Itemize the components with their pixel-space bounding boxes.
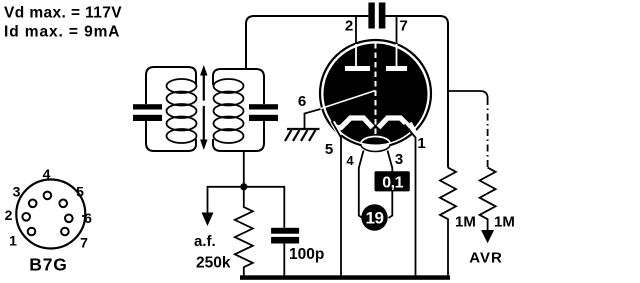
wire pin3 heater [388,151,393,219]
svg-text:5: 5 [76,184,84,200]
svg-text:1M: 1M [455,214,476,231]
socket pin hole 1 [28,228,36,236]
capacitor C1 plates [133,104,162,109]
socket pin hole 4 [44,192,52,200]
resistor R2 1M [480,168,496,231]
svg-text:AVR: AVR [469,250,503,267]
tube socket B7G outline [16,180,85,249]
heater supply badge 19 [361,204,387,230]
wire pin6 [305,109,321,128]
heater ellipse [361,137,391,152]
ground [285,129,320,141]
svg-text:6: 6 [84,210,92,226]
wire pin2 to rail [355,16,357,46]
wire pin1 [405,125,416,276]
wire pin4 heater [359,151,364,219]
capacitor C4 100p plates [271,228,299,234]
secondary tank loop top [213,69,264,104]
svg-text:1: 1 [9,233,17,249]
svg-text:4: 4 [346,153,354,168]
junction node [240,183,247,190]
svg-text:3: 3 [13,184,21,200]
socket pin hole 3 [29,200,37,208]
capacitor C2 plates [249,104,278,109]
capacitor 0,1 block [375,171,410,191]
pin5 exit channel [333,122,341,136]
svg-text:2: 2 [5,207,13,223]
svg-text:Id max. = 9mA: Id max. = 9mA [4,24,120,41]
tube V1 body [324,44,428,145]
tube V1 envelope [320,40,431,147]
svg-text:19: 19 [366,209,384,228]
svg-text:7: 7 [80,235,88,251]
socket pin hole 7 [61,228,69,236]
socket pin hole 2 [22,213,30,221]
cathode right [379,118,411,128]
svg-text:0,1: 0,1 [382,175,403,192]
svg-text:1: 1 [417,135,425,152]
wire node to C4 [244,187,284,228]
grid-6 internal lead [321,91,376,109]
coil L1 [167,79,197,143]
socket pin hole 5 [59,200,67,208]
svg-text:7: 7 [400,18,408,35]
heater ellipse lower arc [361,144,391,151]
wire secondary top to rail [246,16,368,69]
wire branch to AVR [448,91,488,98]
anode plate right [386,66,407,71]
anode wire pin7 [396,44,398,67]
shield dashed line [375,43,377,137]
svg-text:3: 3 [395,151,403,168]
svg-text:B7G: B7G [29,255,67,275]
socket index tick [82,215,87,217]
wire C4 to bus [283,244,285,277]
svg-text:1M: 1M [494,214,515,231]
svg-text:2: 2 [345,18,353,35]
coil L2 [214,79,244,143]
svg-text:a.f.: a.f. [194,233,216,250]
coupling arrow up [200,65,207,101]
svg-text:6: 6 [298,93,306,110]
svg-text:100p: 100p [289,246,324,263]
resistor R1 1M [440,168,456,276]
wire dash-dot AVR [487,98,489,168]
svg-text:5: 5 [325,141,333,158]
svg-text:4: 4 [43,166,51,182]
primary tank loop bottom [146,121,196,151]
capacitor C3 plates (top) [368,3,374,29]
wire secondary bottom to node [243,151,245,187]
svg-text:250k: 250k [196,255,231,272]
primary tank loop top [146,67,196,104]
ground bus [240,275,450,280]
anode wire pin2 [355,44,357,67]
AVR arrow [481,230,494,243]
wire pin5 [332,121,342,276]
socket pin hole 6 [65,215,73,223]
af arrow [202,213,214,227]
wire pin7 to rail [396,16,398,46]
pin1 exit channel [410,123,416,135]
wire rail right [385,16,448,168]
cathode left [335,118,373,128]
coupling arrow down [200,106,207,150]
wire node to af [208,187,244,214]
svg-text:Vd max. = 117V: Vd max. = 117V [4,5,122,22]
resistor 250k [235,187,253,276]
anode plate left [345,66,370,71]
secondary tank loop bottom [213,121,264,151]
